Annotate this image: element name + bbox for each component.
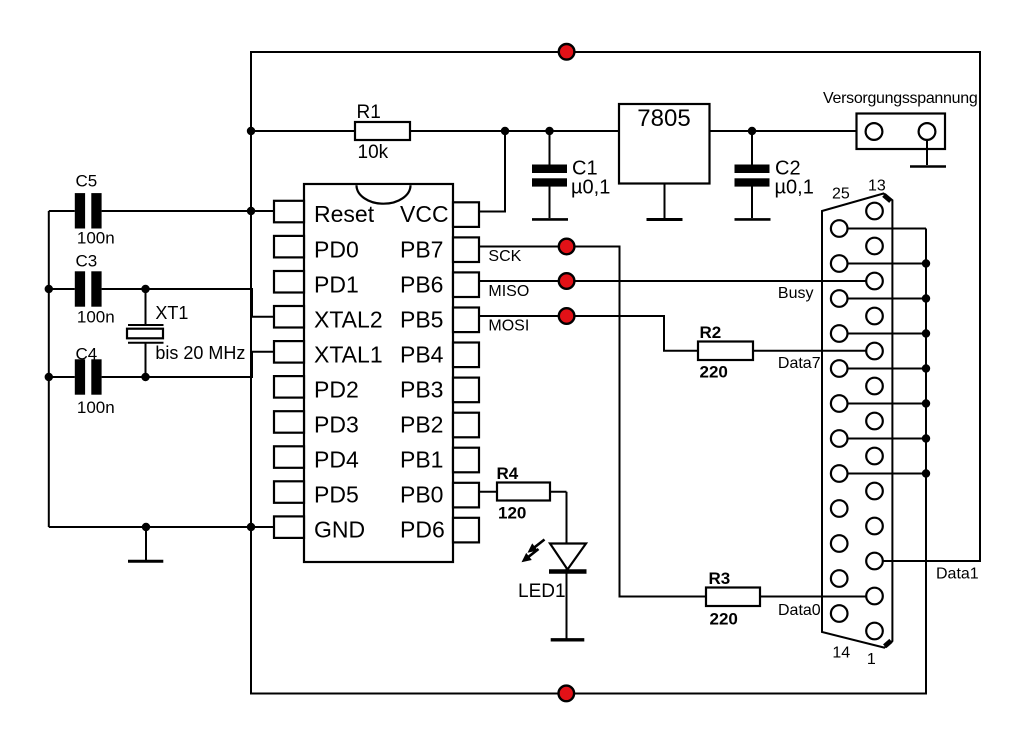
label C2 value <box>775 158 814 199</box>
pin box right PB2 <box>453 413 479 438</box>
svg-text:Versorgungsspannung: Versorgungsspannung <box>823 90 977 107</box>
IC U1 AVR body <box>304 184 453 562</box>
connector supply plug <box>857 114 946 150</box>
svg-text:PD2: PD2 <box>314 377 359 403</box>
pin box left PD3 <box>274 411 304 433</box>
svg-text:MOSI: MOSI <box>488 318 529 335</box>
DB25 left pin 14 <box>831 605 848 622</box>
DB25 right pin 3 <box>866 553 883 570</box>
svg-text:PB6: PB6 <box>400 271 443 297</box>
svg-text:XT1: XT1 <box>155 303 188 323</box>
label XT1 bis 20 MHz <box>155 303 245 363</box>
node red marker MOSI <box>559 308 575 324</box>
svg-text:PD3: PD3 <box>314 412 359 438</box>
svg-text:bis 20 MHz: bis 20 MHz <box>155 343 245 363</box>
voltage regulator 7805 <box>619 104 710 184</box>
node red marker bottom rail <box>559 686 575 702</box>
svg-text:10k: 10k <box>358 142 389 163</box>
label R3 value 220 <box>709 569 738 629</box>
node junction 3 <box>545 127 553 135</box>
svg-text:100n: 100n <box>77 229 115 248</box>
pin box right PB4 <box>453 343 479 368</box>
resistor R2 <box>698 342 753 361</box>
DB25 right pin 11 <box>866 273 883 290</box>
DB25 right pin 2 <box>866 588 883 605</box>
svg-text:PB2: PB2 <box>400 412 443 438</box>
DB25 left pin 25 <box>831 220 848 237</box>
connector DB25 outline <box>822 194 892 648</box>
pin box left PD5 <box>274 481 304 503</box>
node junction 10 <box>142 523 150 531</box>
svg-text:LED1: LED1 <box>518 581 566 602</box>
svg-text:Busy: Busy <box>778 285 814 302</box>
svg-text:C3: C3 <box>76 252 98 271</box>
wire MOSI net PB5 to R2 <box>479 316 698 351</box>
DB25 right pin 1 <box>866 623 883 640</box>
DB25 right pin 6 <box>866 448 883 465</box>
node junction 13 <box>922 294 930 302</box>
svg-text:Data1: Data1 <box>936 566 979 583</box>
ground supply connector <box>910 140 946 167</box>
wire VCC pin stub <box>479 131 505 212</box>
svg-text:C4: C4 <box>76 345 98 364</box>
capacitor C2 <box>735 131 770 218</box>
svg-text:PB3: PB3 <box>400 377 443 403</box>
wire crystal top stem <box>145 289 147 325</box>
label C1 value <box>571 158 610 199</box>
node junction 12 <box>922 259 930 267</box>
svg-text:R3: R3 <box>709 569 731 588</box>
svg-text:Data7: Data7 <box>778 355 821 372</box>
DB25 left pin 18 <box>831 465 848 482</box>
pin box right PB7 <box>453 237 479 262</box>
node red marker top rail <box>559 44 575 60</box>
node junction 1 <box>247 127 255 135</box>
svg-text:XTAL1: XTAL1 <box>314 341 383 367</box>
pin box right PB3 <box>453 378 479 403</box>
node junction 14 <box>922 329 930 337</box>
node red marker MISO <box>559 273 575 289</box>
svg-text:MISO: MISO <box>488 283 529 300</box>
node junction 4 <box>748 127 756 135</box>
svg-text:Data0: Data0 <box>778 602 821 619</box>
DB25 right pin 10 <box>866 308 883 325</box>
wire left bus vertical <box>48 211 50 527</box>
svg-text:PB4: PB4 <box>400 341 444 367</box>
node junction 16 <box>922 399 930 407</box>
svg-text:100n: 100n <box>77 398 115 417</box>
pin box left Reset <box>274 201 304 223</box>
pin box left GND <box>274 516 304 538</box>
wire C3 row to XTAL2 <box>49 289 274 317</box>
wire R2 to Data7 pin <box>753 350 867 352</box>
pin box left XTAL1 <box>274 341 304 363</box>
wire R4 to LED <box>550 491 567 493</box>
svg-text:13: 13 <box>868 178 886 195</box>
DB25 right pin 12 <box>866 238 883 255</box>
DB25 left pin 21 <box>831 360 848 377</box>
wire VCC rail <box>251 130 857 132</box>
wire GND rail <box>49 526 274 528</box>
wire reset row through C5 <box>49 210 274 212</box>
wire R3 to Data0 pin <box>760 596 867 598</box>
node junction 15 <box>922 364 930 372</box>
svg-text:25: 25 <box>832 185 850 202</box>
DB25 right pin 5 <box>866 483 883 500</box>
DB25 right pin 7 <box>866 413 883 430</box>
DB25 left pin 23 <box>831 290 848 307</box>
resistor R1 <box>355 122 410 140</box>
wire right bus down to Data1 <box>867 51 981 561</box>
svg-text:PB5: PB5 <box>400 306 443 332</box>
DB25 right pin 4 <box>866 518 883 535</box>
pin box left XTAL2 <box>274 306 304 328</box>
svg-text:PB0: PB0 <box>400 482 443 508</box>
svg-text:PD5: PD5 <box>314 482 359 508</box>
svg-text:PD0: PD0 <box>314 236 359 262</box>
svg-text:R1: R1 <box>357 102 381 123</box>
node junction 7 <box>141 285 149 293</box>
svg-text:µ0,1: µ0,1 <box>775 177 814 199</box>
DB25 left pin 19 <box>831 430 848 447</box>
wire left main vertical <box>250 51 252 527</box>
pin box right VCC <box>453 202 479 227</box>
pin box right PD6 <box>453 518 479 543</box>
node junction 9 <box>141 373 149 381</box>
node junction 5 <box>247 207 255 215</box>
LED1 diode <box>549 544 587 572</box>
node junction 6 <box>45 285 53 293</box>
label R4 value 120 <box>497 464 527 523</box>
label C5 value 100n <box>76 172 115 248</box>
ground left rail <box>128 527 163 561</box>
svg-text:PD1: PD1 <box>314 271 359 297</box>
svg-text:VCC: VCC <box>400 201 449 227</box>
svg-text:Reset: Reset <box>314 201 375 227</box>
pin box right PB6 <box>453 272 479 297</box>
svg-text:GND: GND <box>314 517 365 543</box>
resistor R3 <box>706 588 760 607</box>
ground C2 <box>735 218 771 221</box>
label DB25 corner pin numbers <box>832 178 886 669</box>
svg-text:PB1: PB1 <box>400 447 443 473</box>
capacitor C3 <box>75 271 102 306</box>
node junction 2 <box>501 127 509 135</box>
wire PB0 to R4 <box>479 491 497 493</box>
pin box right PB1 <box>453 448 479 473</box>
wire DB25 ground pins 25-18 to bus <box>848 229 927 474</box>
node junction 11 <box>247 523 255 531</box>
svg-text:XTAL2: XTAL2 <box>314 306 383 332</box>
wire C4 row to XTAL1 <box>49 352 274 377</box>
node junction 8 <box>45 373 53 381</box>
svg-text:100n: 100n <box>77 307 115 326</box>
label C3 value 100n <box>76 252 115 327</box>
svg-text:220: 220 <box>710 610 738 629</box>
wire MISO net PB6 to Busy pin <box>479 280 867 282</box>
wire LED stem <box>566 492 568 639</box>
wire bottom ground loop <box>251 229 926 694</box>
wire top supply rail <box>251 51 980 53</box>
svg-text:220: 220 <box>700 363 728 382</box>
capacitor C5 <box>75 193 102 228</box>
ground C1 <box>532 218 568 221</box>
ground 7805 <box>647 184 683 220</box>
svg-text:PD4: PD4 <box>314 447 359 473</box>
label C4 value 100n <box>76 345 115 417</box>
label R1 value 10k <box>357 102 389 163</box>
DB25 left pin 16 <box>831 535 848 552</box>
ground LED1 <box>551 638 585 641</box>
DB25 right pin 9 <box>866 343 883 360</box>
svg-text:120: 120 <box>498 504 526 523</box>
svg-text:1: 1 <box>867 651 876 668</box>
svg-text:C5: C5 <box>76 172 98 191</box>
DB25 left pin 17 <box>831 500 848 517</box>
svg-text:R4: R4 <box>497 464 519 483</box>
DB25 right pin 8 <box>866 378 883 395</box>
svg-text:PB7: PB7 <box>400 236 443 262</box>
DB25 left pin 20 <box>831 395 848 412</box>
node junction 17 <box>922 434 930 442</box>
pin box right PB0 <box>453 483 479 508</box>
svg-text:14: 14 <box>832 644 850 661</box>
pin box left PD4 <box>274 446 304 468</box>
LED1 light arrows <box>522 540 545 563</box>
resistor R4 <box>497 483 550 501</box>
svg-text:R2: R2 <box>700 323 722 342</box>
capacitor C1 <box>532 131 567 218</box>
pin box left PD2 <box>274 376 304 398</box>
wire SCK net PB7 to R3 <box>479 247 706 597</box>
DB25 left pin 24 <box>831 255 848 272</box>
label R2 value 220 <box>700 323 728 382</box>
node red marker SCK <box>559 239 575 255</box>
DB25 left pin 22 <box>831 325 848 342</box>
svg-text:SCK: SCK <box>488 248 521 265</box>
svg-text:µ0,1: µ0,1 <box>571 177 610 199</box>
wire crystal bottom stem <box>145 343 147 377</box>
svg-text:7805: 7805 <box>637 105 690 132</box>
capacitor C4 <box>75 359 102 394</box>
DB25 right pin 13 <box>866 203 883 220</box>
pin box left PD0 <box>274 236 304 258</box>
DB25 left pin 15 <box>831 570 848 587</box>
pin box left PD1 <box>274 271 304 293</box>
pin box right PB5 <box>453 308 479 333</box>
crystal XT1 <box>127 325 164 343</box>
node junction 18 <box>922 469 930 477</box>
svg-text:PD6: PD6 <box>400 517 445 543</box>
